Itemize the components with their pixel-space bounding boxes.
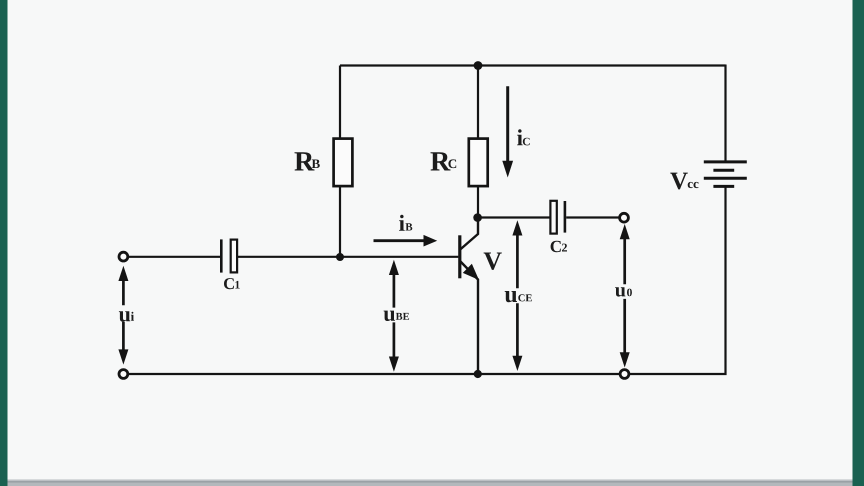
node dot top (RC / top wire) [474, 61, 483, 70]
terminal output bottom [620, 370, 629, 379]
battery Vcc [704, 162, 747, 187]
arrow u0 (double) [620, 224, 630, 368]
terminal input top [119, 252, 128, 261]
node dot collector [473, 213, 482, 222]
label Vcc [670, 173, 698, 190]
arrow iB [374, 235, 438, 247]
label V transistor [484, 253, 502, 270]
wire base input [128, 256, 459, 258]
label C2 [551, 241, 567, 253]
node dot base/RB [336, 253, 344, 261]
label iC [517, 129, 530, 145]
wire RB top [339, 66, 341, 139]
label uBE [384, 311, 410, 321]
arrow uCE (double) [512, 220, 522, 371]
wire right vertical upper [724, 65, 726, 162]
arrow ui (double) [118, 266, 128, 365]
wire right vertical lower [629, 187, 726, 375]
capacitor C1 [221, 239, 237, 272]
wire RC top [477, 66, 479, 139]
capacitor C2 [550, 201, 565, 234]
wire top horizontal [340, 64, 726, 66]
wire bottom horizontal [127, 373, 620, 375]
arrow uBE (double) [389, 260, 399, 372]
label ui [119, 311, 134, 321]
terminal input bottom [119, 370, 128, 379]
terminal output top [620, 213, 629, 222]
label uCE [505, 291, 532, 302]
label RC [431, 152, 457, 170]
transistor V [460, 218, 478, 375]
label RB [295, 152, 320, 170]
label C1 [224, 278, 240, 289]
resistor RC [469, 139, 488, 187]
arrow iC [502, 86, 513, 177]
node dot emitter/bottom [474, 370, 482, 378]
wire collector to C2 [482, 216, 620, 218]
wire RC bottom [477, 187, 479, 218]
label iB [399, 215, 412, 231]
label u0 [615, 287, 632, 296]
wire RB bottom [339, 187, 341, 257]
resistor RB [334, 139, 353, 187]
